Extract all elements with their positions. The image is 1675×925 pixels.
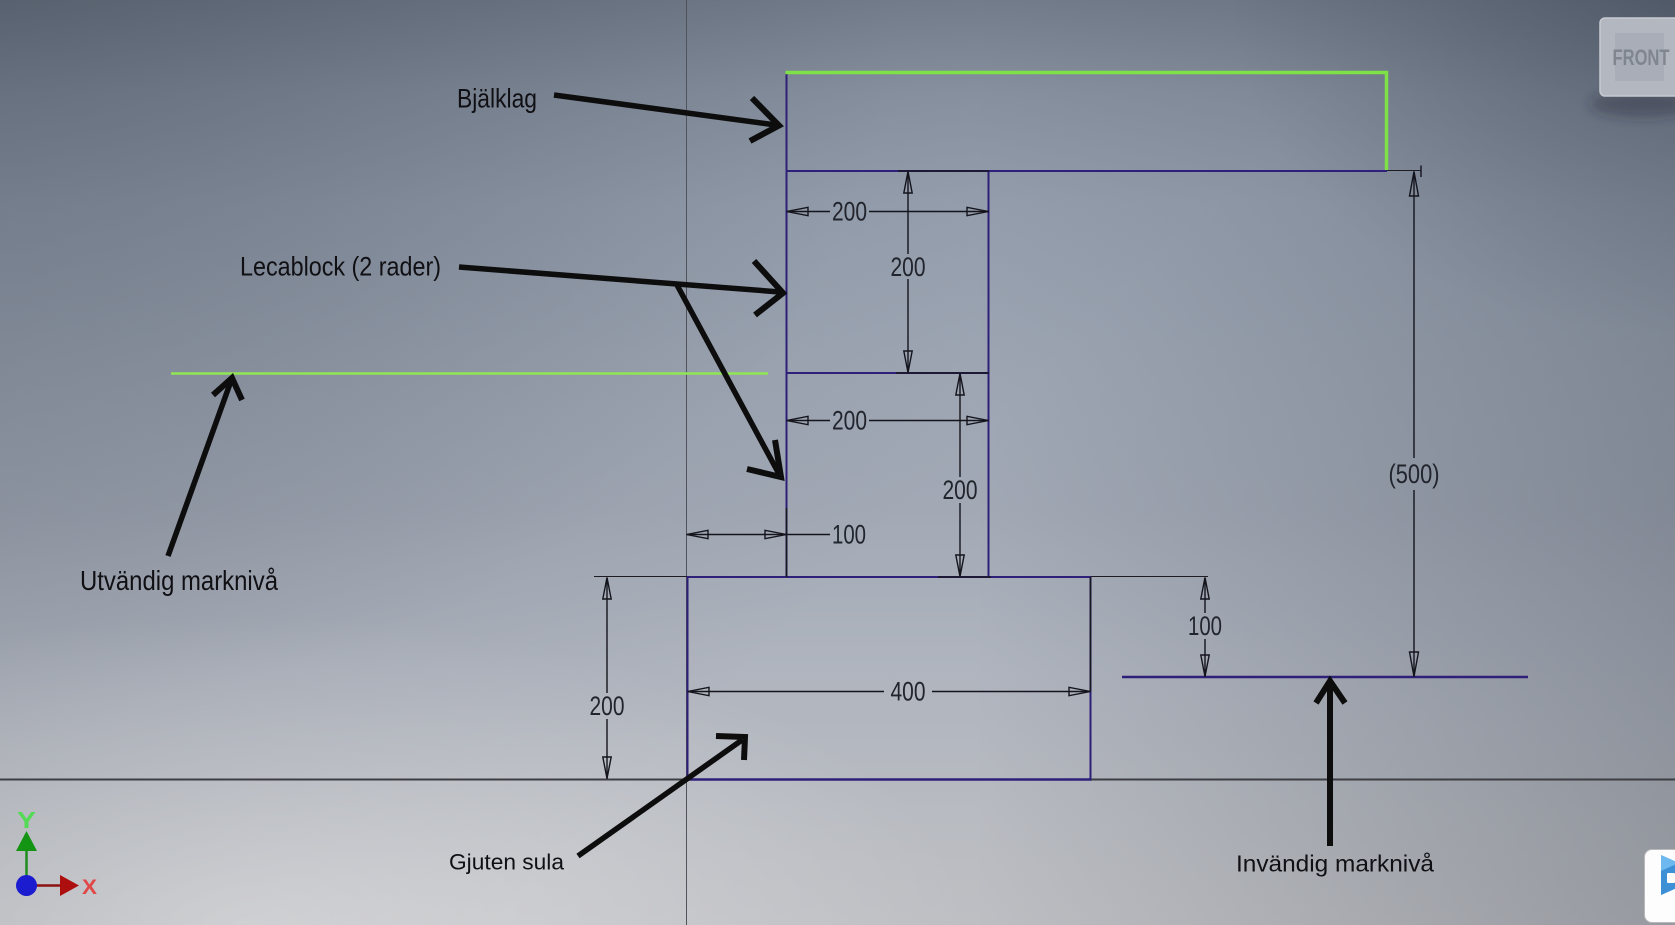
svg-text:Invändig marknivå: Invändig marknivå — [1236, 851, 1435, 877]
extension overlay on footing top edge right part — [938, 576, 991, 578]
extension tick at (500) top — [1420, 166, 1422, 178]
bottom-right tooltip panel — [1644, 849, 1675, 923]
svg-text:200: 200 — [891, 252, 926, 282]
sketch Y-axis vertical line — [686, 0, 688, 925]
dimension 200 horizontal middle: line — [787, 416, 990, 424]
dimension extension line right of footing top — [1091, 576, 1208, 578]
svg-text:200: 200 — [832, 406, 867, 436]
gjuten sula footing bottom edge — [687, 778, 1092, 781]
svg-text:200: 200 — [832, 197, 867, 227]
annotation arrow Gjuten sula — [578, 736, 745, 856]
dimension 200 horizontal upper: line — [787, 207, 990, 215]
gjuten sula footing right edge — [1090, 577, 1092, 779]
bjälklag slab bottom edge — [786, 170, 1388, 172]
annotation arrow Utvändig marknivå — [168, 378, 242, 556]
svg-text:200: 200 — [943, 475, 978, 505]
svg-text:X: X — [82, 876, 97, 899]
svg-text:Bjälklag: Bjälklag — [457, 84, 537, 114]
origin triad blue sphere — [16, 875, 37, 896]
origin triad Y axis line — [25, 851, 28, 876]
viewcube inner face — [1615, 33, 1664, 81]
viewcube FRONT face — [1600, 18, 1675, 96]
dimension extension line left of footing top — [594, 576, 687, 578]
lecablock row 2 left edge — [786, 373, 788, 577]
annotation arrow Bjälklag — [554, 95, 779, 141]
dimension 200 vertical left: line — [603, 578, 611, 780]
dimension extension line top right (500) — [1387, 170, 1421, 172]
lecablock row 2 right edge — [988, 373, 990, 577]
bottom-right blue cube icon — [1645, 851, 1675, 923]
svg-text:Y: Y — [17, 807, 36, 833]
dimension 100 vertical right: line — [1201, 578, 1209, 678]
dimension 100 horizontal: line with leader — [687, 530, 831, 538]
extension overlay footing right edge — [1090, 577, 1092, 691]
origin triad Y arrowhead — [16, 831, 37, 851]
gjuten sula footing left edge — [687, 577, 689, 779]
dimension (500): line — [1410, 172, 1419, 678]
svg-text:400: 400 — [891, 677, 926, 707]
lecablock row 1 bottom edge — [786, 372, 990, 374]
lecablock row 1 right edge — [988, 171, 990, 373]
sketch X-axis horizontal line — [0, 779, 1675, 781]
gjuten sula footing top edge — [687, 576, 1092, 578]
annotation arrow Invändig marknivå — [1316, 681, 1345, 846]
dimension 200 vertical upper: line — [904, 172, 912, 374]
viewcube shadow — [1590, 91, 1675, 117]
dimension 400: line — [688, 687, 1091, 695]
dimension 200 vertical middle: line — [956, 374, 964, 578]
invändig marknivå purple ground line — [1122, 676, 1528, 679]
extension overlay on bjälklag bottom edge — [898, 170, 989, 172]
lecablock row 1 left edge — [786, 171, 788, 373]
origin triad X arrowhead — [60, 875, 79, 896]
bjälklag slab right edge (green) — [1385, 71, 1389, 171]
bjälklag slab top edge (green) — [786, 71, 1389, 75]
annotation arrow Lecablock lower — [677, 285, 781, 477]
extension overlay block2 left edge lower part — [786, 508, 788, 577]
svg-text:Lecablock (2 rader): Lecablock (2 rader) — [240, 252, 441, 282]
svg-text:Gjuten sula: Gjuten sula — [449, 850, 565, 875]
origin triad X axis line — [36, 884, 61, 887]
svg-text:Utvändig marknivå: Utvändig marknivå — [80, 565, 278, 596]
svg-text:100: 100 — [832, 520, 866, 550]
annotation arrow Lecablock upper — [459, 261, 783, 315]
bjälklag slab left edge — [786, 71, 788, 172]
svg-text:200: 200 — [590, 691, 625, 721]
svg-text:(500): (500) — [1389, 459, 1440, 489]
utvändig marknivå green ground line — [171, 372, 768, 375]
svg-text:100: 100 — [1188, 611, 1222, 641]
svg-text:FRONT: FRONT — [1613, 45, 1670, 70]
extension overlay on block1 bottom edge — [896, 372, 989, 374]
